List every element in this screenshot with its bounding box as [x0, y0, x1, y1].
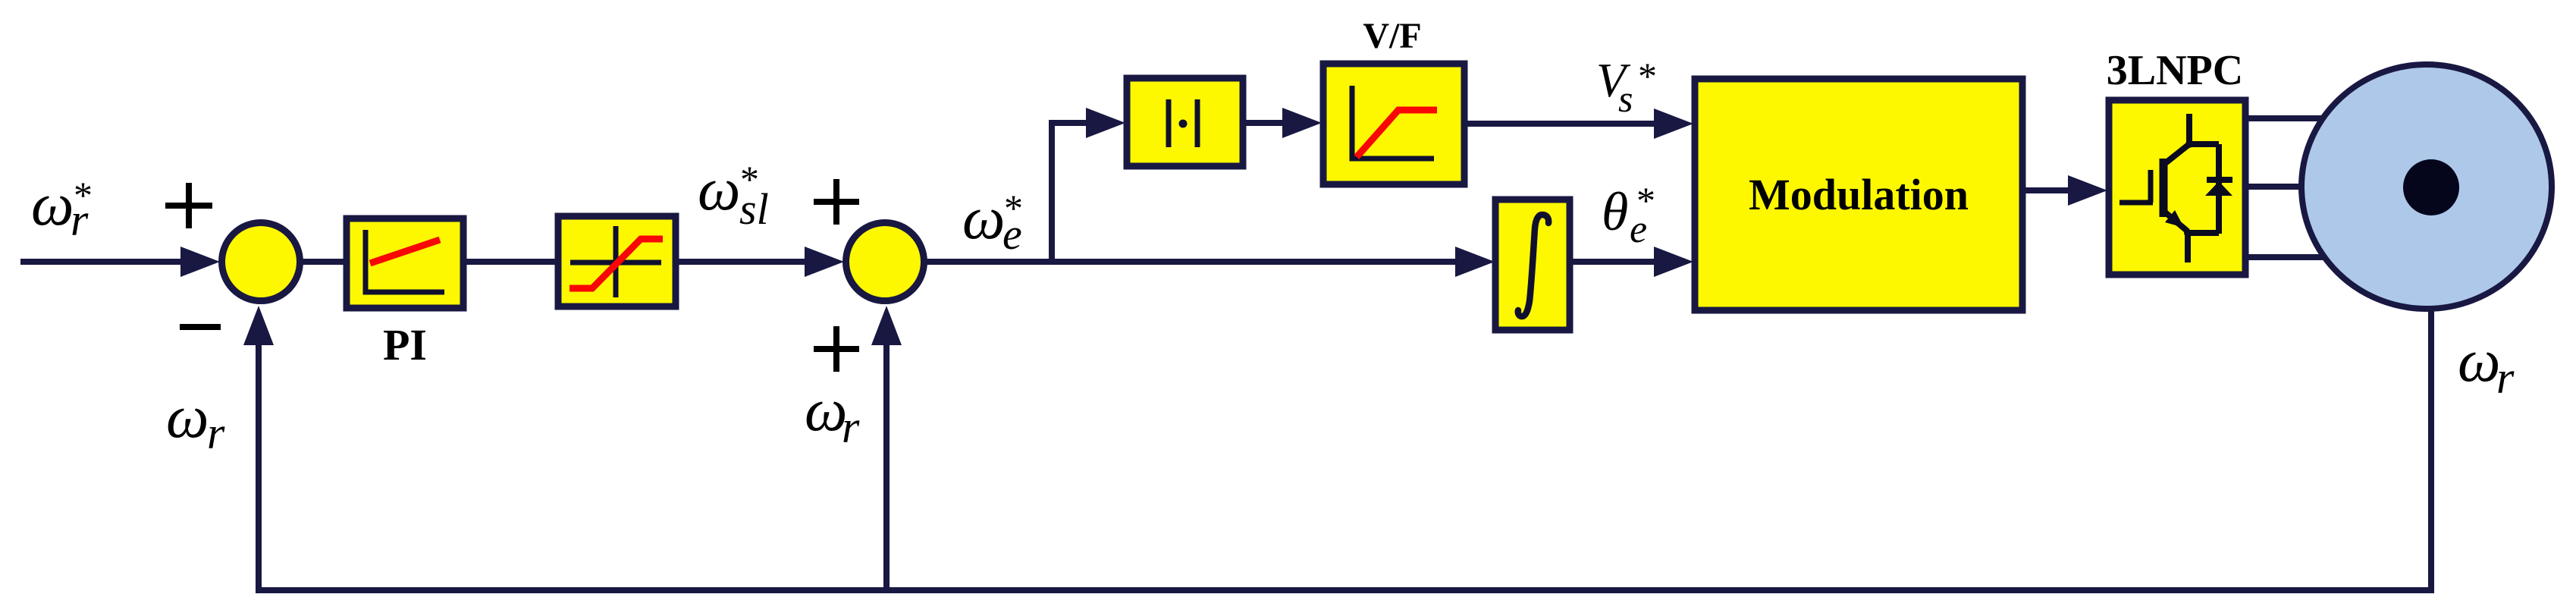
- svg-text:*: *: [74, 174, 93, 216]
- svg-text:*: *: [1636, 179, 1655, 222]
- svg-text:*: *: [740, 158, 759, 200]
- svg-text:PI: PI: [383, 320, 427, 369]
- svg-text:ω: ω: [698, 156, 740, 223]
- svg-text:Modulation: Modulation: [1749, 170, 1969, 219]
- svg-text:r: r: [2496, 353, 2515, 403]
- svg-text:*: *: [1638, 55, 1657, 97]
- svg-text:*: *: [1004, 187, 1023, 229]
- svg-text:s: s: [1618, 77, 1633, 120]
- svg-text:V/F: V/F: [1363, 16, 1421, 56]
- svg-text:r: r: [842, 402, 860, 452]
- svg-text:ω: ω: [962, 185, 1005, 252]
- svg-text:ω: ω: [166, 384, 209, 451]
- svg-text:r: r: [207, 408, 225, 458]
- svg-text:3LNPC: 3LNPC: [2107, 47, 2243, 94]
- svg-text:ω: ω: [805, 377, 847, 444]
- svg-text:ω: ω: [2458, 328, 2500, 395]
- svg-text:θ: θ: [1602, 181, 1628, 242]
- svg-text:ω: ω: [31, 171, 74, 238]
